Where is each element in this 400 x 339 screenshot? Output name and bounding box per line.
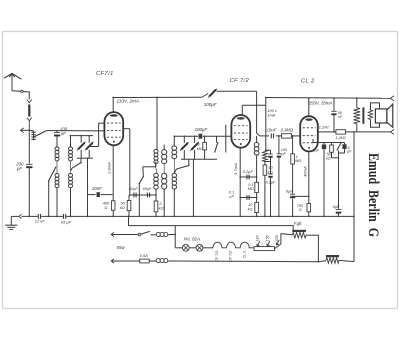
- svg-text:12 nF: 12 nF: [35, 219, 46, 224]
- svg-text:Ω: Ω: [299, 208, 302, 212]
- tube V3 CL2: [300, 116, 318, 151]
- second bus: [129, 216, 294, 229]
- coil IFT1 lower b: [162, 173, 167, 179]
- wire plug to arrester: [23, 92, 29, 100]
- capacitor 100pF series: [199, 134, 203, 139]
- capacitor 0.2uF b: [146, 193, 148, 198]
- node plate bus V1: [113, 96, 202, 98]
- coil IFT1 secondary: [162, 150, 167, 155]
- resistor 50k screen: [264, 162, 266, 166]
- detector coil: [256, 136, 258, 143]
- resistor 50k out: [331, 143, 333, 146]
- svg-text:220: 220: [275, 235, 279, 242]
- mains input L2: [111, 259, 114, 263]
- resistor 10k: [255, 202, 259, 212]
- wire trimmer top: [71, 135, 94, 137]
- wire down to det: [256, 91, 258, 133]
- resistor 1M grid: [292, 136, 294, 154]
- cathode V1: [112, 145, 114, 201]
- B+ end arrow: [391, 96, 394, 101]
- wire tone down: [338, 150, 340, 208]
- svg-text:1,20V: 1,20V: [319, 126, 329, 130]
- wire to V3 grid: [291, 135, 300, 137]
- shield line: [225, 125, 227, 153]
- trimmer C2: [80, 136, 82, 143]
- coil IFT1 lower a: [154, 173, 158, 177]
- capacitor 0.2uF a: [133, 193, 135, 198]
- band switch S3: [175, 169, 177, 173]
- svg-text:CL 2: CL 2: [301, 78, 315, 84]
- svg-text:4µF: 4µF: [312, 148, 319, 152]
- svg-text:100 v: 100 v: [267, 109, 277, 113]
- top cap wire V2: [241, 105, 243, 115]
- fuse 0.5A: [140, 259, 149, 263]
- ballast resistor: [254, 247, 275, 251]
- speaker voice coil: [368, 110, 372, 120]
- wire 0.2uF: [240, 176, 256, 178]
- svg-text:100µF: 100µF: [204, 102, 217, 107]
- svg-text:MΩ: MΩ: [248, 187, 254, 191]
- tube V1 CF7 (1): [104, 112, 123, 145]
- antenna input arrow: [21, 128, 24, 133]
- capacitor 0.2uF det: [246, 175, 248, 180]
- tube V2 CF7 (2): [231, 115, 250, 148]
- svg-text:150: 150: [265, 235, 269, 241]
- capacitor 200pF: [26, 163, 32, 165]
- ground: [10, 216, 12, 225]
- svg-text:MΩ: MΩ: [197, 147, 203, 151]
- svg-text:0.2µF: 0.2µF: [243, 169, 254, 174]
- wire screen feed: [265, 98, 267, 151]
- resistor 400R: [111, 201, 115, 210]
- wire 1M down: [292, 164, 294, 194]
- switch S4: [216, 136, 218, 142]
- resistor 0.3M: [282, 134, 292, 138]
- out end arrow: [391, 129, 394, 134]
- choke L1: [151, 234, 157, 236]
- trimmer C5: [194, 136, 196, 143]
- svg-text:pF: pF: [280, 152, 286, 156]
- svg-text:65µF: 65µF: [143, 187, 152, 191]
- junction dots: [28, 216, 30, 218]
- mains input L1: [111, 232, 114, 236]
- svg-text:CF 7/2: CF 7/2: [230, 78, 250, 84]
- coil L3: [172, 146, 177, 151]
- capacitor 4uF: [323, 143, 325, 145]
- grid wire V2: [174, 135, 198, 137]
- resistor 2k: [155, 195, 157, 201]
- filter resistor: [326, 255, 339, 257]
- svg-text:40mA: 40mA: [303, 166, 308, 177]
- wire 0.1uF: [240, 197, 256, 199]
- capacitor 10nF: [270, 134, 272, 139]
- wire to IFT1: [156, 97, 158, 149]
- coil L2a: [69, 147, 73, 151]
- svg-text:6µF: 6µF: [286, 190, 293, 194]
- tap wire up: [275, 244, 281, 249]
- spark gap: [33, 131, 35, 140]
- lightning arrester: [27, 100, 32, 103]
- svg-text:CF 7/1: CF 7/1: [215, 251, 219, 262]
- wire out line: [345, 131, 390, 133]
- resistor 2M: [204, 136, 206, 142]
- capacitor 63pF in bus: [63, 214, 65, 219]
- switch tone: [337, 143, 341, 150]
- resistor 700R: [307, 203, 311, 211]
- svg-text:nF: nF: [338, 115, 343, 119]
- dial lamp 2: [189, 247, 196, 249]
- svg-text:0,5A: 0,5A: [140, 253, 149, 258]
- cathode V3: [308, 151, 310, 203]
- band switch S1b: [71, 168, 72, 170]
- heater humps: [203, 247, 213, 249]
- svg-text:110V, 2mA: 110V, 2mA: [117, 99, 140, 104]
- capacitor 6uF out: [336, 208, 342, 210]
- svg-text:20nF: 20nF: [91, 186, 102, 191]
- field coil Fglt: [292, 230, 306, 232]
- anode out V1: [123, 128, 130, 130]
- wire fglt right: [306, 234, 319, 236]
- coil L2b: [68, 173, 72, 177]
- antenna: [4, 74, 12, 79]
- resistor 0.1M: [255, 182, 259, 192]
- svg-text:kΩ: kΩ: [326, 156, 331, 160]
- resistor screen zig: [263, 150, 268, 161]
- svg-text:6µF: 6µF: [333, 205, 340, 209]
- wire antenna to plug: [12, 90, 21, 93]
- coil L1a: [55, 147, 59, 151]
- svg-text:pF: pF: [16, 166, 22, 171]
- switch S2: [155, 162, 157, 167]
- grid wire to V1: [57, 130, 104, 132]
- svg-text:1,2kΩ: 1,2kΩ: [335, 136, 345, 140]
- wire arrester down: [28, 130, 30, 163]
- svg-text:0.2µF: 0.2µF: [266, 180, 276, 184]
- antenna plug connector: [21, 90, 23, 92]
- dial lamp 1: [175, 247, 182, 249]
- fuse 1.2k: [336, 130, 346, 134]
- svg-text:kΩ: kΩ: [120, 205, 125, 210]
- trimmer C4: [183, 136, 185, 143]
- capacitor 0.1uF: [246, 195, 248, 200]
- capacitor 50nF: [333, 98, 335, 111]
- svg-text:µF: µF: [229, 195, 234, 199]
- capacitor 100pF grid: [278, 136, 280, 154]
- svg-text:kΩ: kΩ: [248, 207, 253, 211]
- wire box bottom: [181, 158, 217, 160]
- svg-text:110: 110: [255, 236, 259, 242]
- svg-text:2.8mA: 2.8mA: [107, 162, 112, 175]
- trimmer C3: [88, 136, 90, 143]
- chassis arrow: [11, 215, 18, 217]
- svg-text:pF: pF: [60, 131, 66, 136]
- capacitor screen: [270, 150, 272, 153]
- cathode V2: [239, 148, 241, 217]
- svg-text:100µF: 100µF: [195, 127, 208, 132]
- svg-text:CF7/1: CF7/1: [96, 71, 114, 77]
- svg-text:CF 7/2: CF 7/2: [229, 251, 233, 262]
- ground bus: [22, 215, 38, 217]
- svg-text:F.glt: F.glt: [294, 221, 302, 226]
- heater feed: [174, 226, 176, 248]
- plate wire V3: [308, 98, 310, 116]
- svg-text:250V, 35mA: 250V, 35mA: [308, 100, 333, 105]
- svg-text:CL 2: CL 2: [242, 251, 246, 259]
- tap arrows: [257, 241, 260, 246]
- choke L2: [149, 260, 156, 262]
- wire caps line: [130, 194, 156, 196]
- right long wire: [353, 132, 355, 262]
- grid2 wire V1: [99, 122, 105, 124]
- wire coupling: [260, 135, 269, 137]
- band switch S1a: [49, 167, 56, 181]
- resistor 50k: [128, 195, 130, 201]
- svg-text:0.3MΩ: 0.3MΩ: [281, 127, 294, 132]
- plate wire V1: [112, 98, 114, 113]
- coil IFT1 primary: [154, 149, 158, 153]
- capacitor 12nF in bus: [37, 214, 39, 219]
- capacitor 0.2uF screen: [270, 162, 272, 174]
- capacitor 6uF cath: [290, 193, 295, 195]
- svg-text:1.7mA: 1.7mA: [233, 163, 238, 175]
- svg-text:kΩ: kΩ: [159, 206, 164, 211]
- svg-text:Ω: Ω: [104, 205, 107, 210]
- capacitor C1 100pF: [56, 131, 58, 133]
- svg-text:62µF: 62µF: [129, 187, 138, 191]
- transformer core: [362, 107, 364, 123]
- capacitor 5uF: [344, 143, 346, 145]
- wire cath link: [293, 195, 309, 197]
- capacitor 20nF: [88, 194, 96, 196]
- coil L1b: [55, 173, 59, 177]
- svg-text:10nF: 10nF: [267, 127, 277, 132]
- svg-text:NV, 02A: NV, 02A: [184, 237, 200, 242]
- svg-text:1mA: 1mA: [267, 113, 275, 117]
- trimmer 100pF plate: [202, 93, 208, 97]
- rail V3 networks: [313, 142, 345, 144]
- wire trimmer bottom: [77, 157, 93, 159]
- svg-text:55w: 55w: [117, 245, 126, 250]
- speaker: [375, 109, 387, 123]
- coil L3b: [172, 173, 176, 177]
- svg-text:63 pF: 63 pF: [61, 220, 72, 225]
- screen line V3: [318, 131, 336, 133]
- svg-text:Emud Berlin G: Emud Berlin G: [365, 153, 382, 237]
- output transformer primary: [356, 98, 358, 108]
- antenna switch lever: [34, 131, 47, 137]
- wire switch to C1: [29, 129, 33, 132]
- mains switch: [138, 233, 141, 236]
- svg-text:MΩ: MΩ: [295, 159, 301, 163]
- B+ 250V line: [266, 97, 391, 100]
